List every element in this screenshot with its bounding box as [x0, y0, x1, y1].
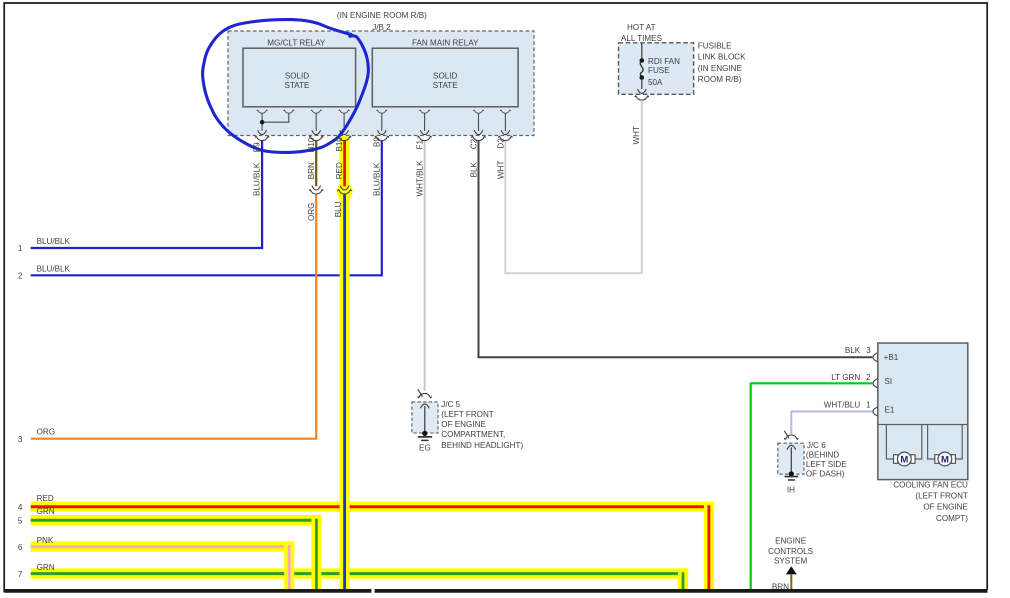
svg-text:WHT/BLK: WHT/BLK [415, 160, 424, 197]
svg-text:+B1: +B1 [884, 353, 899, 362]
svg-text:BRN: BRN [307, 162, 316, 179]
svg-text:IH: IH [787, 486, 795, 495]
svg-text:2: 2 [18, 272, 23, 281]
wire ORG from connector down to row 3 [31, 194, 317, 439]
wire WHT from fuse down, left, up to relay pin D2 [505, 100, 641, 273]
ground EG [418, 431, 432, 453]
wire BLU segment below connector [343, 194, 346, 590]
ECU U3: COOLING FAN ECU box [878, 343, 968, 480]
svg-text:FUSIBLE: FUSIBLE [698, 42, 732, 51]
svg-text:3: 3 [18, 435, 23, 444]
hand-drawn blue circle around MG/CLT relay [203, 20, 369, 153]
svg-text:M: M [900, 454, 908, 465]
svg-text:J/C 5: J/C 5 [441, 400, 460, 409]
svg-text:WHT: WHT [496, 161, 505, 179]
row 6 wire PNK with yellow highlight [31, 541, 295, 551]
svg-text:LEFT SIDE: LEFT SIDE [806, 460, 847, 469]
fuse F1: RDI FAN FUSE 50A [640, 43, 645, 89]
vertical PNK wire with highlight to bottom [284, 541, 294, 589]
svg-text:C2: C2 [469, 138, 478, 149]
svg-text:2: 2 [866, 373, 871, 382]
svg-text:4: 4 [18, 503, 23, 512]
svg-text:J/C 6: J/C 6 [807, 441, 826, 450]
wire WHT/BLU from ECU E1 pin to J/C 6 [791, 412, 872, 435]
svg-text:BLU/BLK: BLU/BLK [373, 162, 382, 196]
svg-text:GRN: GRN [37, 563, 55, 572]
svg-text:6: 6 [18, 543, 23, 552]
svg-text:GRN: GRN [37, 507, 55, 516]
svg-text:COOLING FAN ECU: COOLING FAN ECU [893, 481, 968, 490]
wire WHT/BLK from pin F1 down to J/C 5 [424, 141, 426, 391]
connector cups below J/B 2 [255, 136, 268, 140]
svg-text:LT GRN: LT GRN [831, 373, 860, 382]
svg-text:BLU/BLK: BLU/BLK [37, 237, 71, 246]
svg-text:BLU: BLU [334, 201, 343, 217]
svg-text:MG/CLT RELAY: MG/CLT RELAY [267, 38, 326, 47]
svg-text:OF DASH): OF DASH) [806, 470, 845, 479]
svg-text:B9: B9 [373, 137, 382, 147]
bottom page edge black band [5, 589, 371, 593]
wire BRN to engine controls system [790, 574, 792, 589]
svg-text:EG: EG [419, 444, 431, 453]
internal wires from relay pins to J/B edge [262, 113, 505, 131]
svg-text:5: 5 [18, 516, 23, 525]
svg-text:(IN ENGINE: (IN ENGINE [698, 64, 743, 73]
svg-text:STATE: STATE [285, 81, 310, 90]
junction dot joining pins B9 of MG/CLT relay [260, 120, 265, 125]
svg-text:BEHIND HEADLIGHT): BEHIND HEADLIGHT) [441, 441, 523, 450]
svg-text:1: 1 [18, 244, 23, 253]
arrow at fuse box lower edge [637, 89, 646, 93]
engine controls system off-page arrow [768, 537, 814, 575]
ground IH [785, 471, 799, 494]
svg-text:HOT AT: HOT AT [627, 23, 656, 32]
svg-text:CONTROLS: CONTROLS [768, 547, 814, 556]
wire BLU/BLK row 2 from pin B9 [31, 141, 382, 276]
svg-text:FUSE: FUSE [648, 66, 670, 75]
arrows at J/B 2 lower edge [258, 130, 267, 134]
svg-text:BLK: BLK [469, 162, 478, 178]
svg-text:B10: B10 [335, 137, 344, 152]
row 5 wire GRN with yellow highlight [31, 515, 322, 525]
svg-text:LINK BLOCK: LINK BLOCK [698, 53, 746, 62]
svg-text:FAN MAIN RELAY: FAN MAIN RELAY [412, 38, 479, 47]
svg-text:(BEHIND: (BEHIND [806, 451, 839, 460]
svg-text:50A: 50A [648, 78, 663, 87]
svg-text:WHT/BLU: WHT/BLU [824, 400, 861, 409]
relay U1: MG/CLT RELAY solid state [243, 38, 356, 107]
svg-text:WHT: WHT [632, 126, 641, 144]
svg-text:OF ENGINE: OF ENGINE [441, 420, 486, 429]
fan motor M2 [928, 425, 963, 466]
svg-text:PNK: PNK [37, 536, 54, 545]
wire RED segment from pin B10 [343, 140, 346, 186]
ECU pin cups [873, 353, 877, 362]
svg-text:1: 1 [866, 400, 871, 409]
fan motor M1 [886, 425, 921, 466]
svg-text:RED: RED [37, 494, 54, 503]
svg-text:H10: H10 [307, 137, 316, 152]
svg-text:3: 3 [866, 346, 871, 355]
svg-text:B9: B9 [253, 142, 262, 152]
junction connector J/C 5 [412, 389, 524, 450]
main highlighted vertical: RED above connector, BLU below, from pin B10 [340, 136, 350, 590]
svg-text:BLU/BLK: BLU/BLK [253, 162, 262, 196]
inline connector RED to BLU [340, 186, 349, 190]
svg-text:ALL TIMES: ALL TIMES [621, 34, 663, 43]
svg-text:OF ENGINE: OF ENGINE [923, 503, 968, 512]
svg-text:ENGINE: ENGINE [775, 537, 807, 546]
svg-text:(IN ENGINE ROOM R/B): (IN ENGINE ROOM R/B) [337, 11, 427, 20]
svg-text:E1: E1 [885, 405, 895, 414]
svg-text:BLU/BLK: BLU/BLK [37, 265, 71, 274]
svg-text:(LEFT FRONT: (LEFT FRONT [915, 492, 968, 501]
svg-text:F1: F1 [415, 140, 424, 150]
svg-text:ORG: ORG [37, 428, 55, 437]
pin cups on FAN MAIN relay [377, 110, 387, 113]
connector cup below fuse box [635, 96, 648, 100]
svg-text:ROOM R/B): ROOM R/B) [698, 75, 742, 84]
wire BRN from pin H10 [315, 141, 317, 187]
svg-text:(LEFT FRONT: (LEFT FRONT [441, 410, 494, 419]
svg-text:COMPARTMENT,: COMPARTMENT, [441, 430, 505, 439]
svg-text:D2: D2 [496, 138, 505, 149]
ECU caption [893, 481, 968, 523]
vertical GRN wire with highlight to bottom [311, 515, 321, 590]
inline connector BRN to ORG [312, 186, 321, 190]
svg-text:BLK: BLK [845, 346, 861, 355]
row 4 wire RED with yellow highlight [31, 502, 715, 512]
svg-text:STATE: STATE [433, 81, 458, 90]
yellow highlighter blob at connector [336, 183, 353, 200]
row 7 wire GRN with yellow highlight [31, 568, 689, 578]
svg-text:SOLID: SOLID [433, 72, 457, 81]
svg-text:SI: SI [885, 377, 893, 386]
svg-text:COMPT): COMPT) [936, 514, 968, 523]
svg-text:RED: RED [335, 162, 344, 179]
svg-text:7: 7 [18, 570, 23, 579]
svg-text:RDI FAN: RDI FAN [648, 57, 680, 66]
fusible link block dashed box [619, 23, 747, 94]
junction block J/B 2 dashed box [228, 11, 534, 135]
wire LT GRN from ECU SI pin down to bottom [751, 383, 873, 590]
svg-text:SYSTEM: SYSTEM [774, 556, 808, 565]
svg-text:M: M [941, 454, 949, 465]
vertical RED row 4 wire with highlight to bottom [704, 502, 714, 590]
wire BLU/BLK row 1 from pin B9 [31, 141, 262, 248]
svg-text:ORG: ORG [307, 203, 316, 221]
wire BLK from pin C2 down and right to ECU +B1 [479, 141, 873, 358]
relay U2: FAN MAIN RELAY solid state [372, 38, 518, 107]
junction connector J/C 6 [778, 431, 847, 479]
pin cups on MG/CLT relay [257, 110, 267, 113]
svg-text:J/B 2: J/B 2 [372, 23, 391, 32]
vertical GRN row 7 wire with highlight to bottom [678, 568, 688, 589]
svg-text:SOLID: SOLID [285, 72, 309, 81]
